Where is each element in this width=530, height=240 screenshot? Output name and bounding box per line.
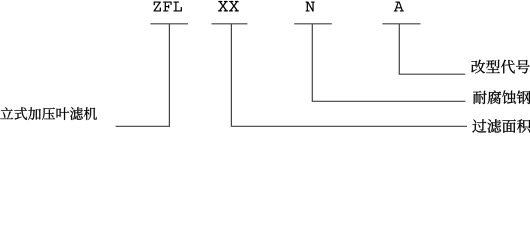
code text A <box>394 2 404 12</box>
leader line from A to modification code label <box>399 24 465 74</box>
tick bar under N <box>294 23 332 25</box>
leader line from N to corrosion-resistant steel label <box>312 24 465 102</box>
leader line from ZFL down-left to product name <box>116 24 170 127</box>
label: vertical pressure leaf filter (立式加压叶滤机) <box>0 107 97 120</box>
label: modification code (改型代号) <box>471 60 529 74</box>
label: filtration area (过滤面积) <box>472 119 530 133</box>
tick bar under XX <box>212 23 248 25</box>
code text N <box>306 2 315 12</box>
label: corrosion-resistant steel (耐腐蚀钢) <box>473 91 530 105</box>
leader line from XX to filtration area label <box>231 24 467 127</box>
code text XX <box>218 1 239 12</box>
tick bar under A <box>382 23 420 25</box>
code text ZFL <box>153 2 181 12</box>
tick bar under ZFL <box>150 23 188 25</box>
